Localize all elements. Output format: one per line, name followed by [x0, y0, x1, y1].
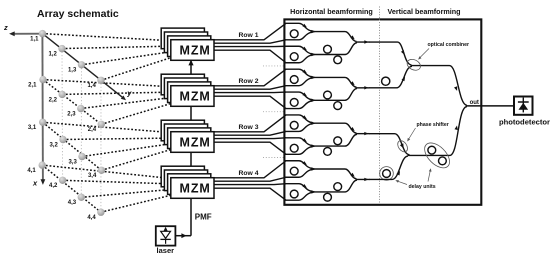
wire MZM3 output 3	[214, 137, 286, 140]
photodetector PD1	[514, 97, 533, 115]
combiner stage1 unit 7	[285, 161, 316, 178]
ring resonator stage2 row 1 a	[324, 45, 332, 53]
wire MZM4 output 2	[214, 177, 286, 181]
svg-text:Row 4: Row 4	[238, 170, 258, 177]
combiner stage2 row 3	[313, 123, 370, 146]
svg-text:4,2: 4,2	[49, 183, 58, 189]
feed line element 4,1 to MZM4	[42, 165, 176, 179]
ring resonator stage2 row 3 b	[334, 137, 342, 145]
feed line element 3,1 to MZM3	[43, 122, 176, 133]
svg-text:MZM: MZM	[180, 182, 211, 196]
row 3 axis dashed line	[43, 122, 102, 170]
feed line element 2,4 to MZM2	[101, 102, 176, 124]
antenna element 2,4	[98, 121, 105, 128]
svg-text:out: out	[470, 100, 479, 106]
wire MZM1 output 3	[214, 45, 286, 47]
svg-text:PMF: PMF	[195, 213, 212, 222]
phase shifter annotation ellipse	[396, 139, 410, 154]
combiner stage2 row 4	[313, 169, 370, 192]
delay units annotation ellipse	[420, 138, 454, 172]
antenna element 2,2	[59, 91, 66, 98]
svg-text:photodetector: photodetector	[499, 118, 550, 127]
feed line element 3,2 to MZM3	[63, 138, 176, 140]
wire laser to PMF	[176, 233, 191, 238]
ring resonator stage1 unit 2	[290, 53, 298, 61]
modulator stack MZM1 (Row 1)	[161, 28, 214, 60]
wire MZM2 output 1	[214, 69, 286, 86]
section divider	[379, 7, 381, 204]
ring resonator stage2 row 3 a	[324, 148, 332, 156]
svg-text:Vertical beamforming: Vertical beamforming	[387, 7, 460, 16]
feed line element 2,3 to MZM2	[81, 97, 176, 109]
feed line element 1,3 to MZM1	[82, 51, 177, 65]
wire MZM1 output 1	[214, 23, 286, 39]
svg-text:1,3: 1,3	[68, 68, 77, 74]
svg-text:optical combiner: optical combiner	[428, 42, 470, 48]
modulator stack MZM4 (Row 4)	[161, 166, 214, 198]
svg-text:MZM: MZM	[180, 136, 211, 150]
wire combined rows 3-4	[408, 107, 468, 156]
svg-text:x: x	[32, 179, 38, 188]
svg-text:delay units: delay units	[409, 184, 436, 190]
wire out	[466, 105, 514, 107]
x axis	[41, 34, 46, 185]
wire MZM3 output 1	[214, 115, 286, 132]
svg-text:z: z	[3, 23, 8, 32]
feed line element 4,2 to MZM4	[63, 180, 176, 184]
svg-text:3,3: 3,3	[68, 159, 77, 165]
antenna element 1,3	[78, 61, 85, 68]
feed line element 1,2 to MZM1	[62, 46, 176, 49]
svg-text:2,1: 2,1	[28, 83, 37, 89]
wire row4 to vertical combiner	[369, 156, 408, 179]
svg-text:3,2: 3,2	[49, 142, 58, 148]
combiner stage2 row 1	[313, 32, 370, 55]
row group separator	[263, 111, 284, 113]
feed line element 1,1 to MZM1	[43, 34, 177, 41]
feed line element 4,4 to MZM4	[101, 194, 176, 212]
svg-text:phase shifter: phase shifter	[417, 122, 449, 128]
OBFN chip boundary	[284, 19, 481, 204]
feed line element 3,4 to MZM3	[102, 148, 177, 170]
wire MZM2 output 3	[214, 91, 286, 94]
ring resonator stage1 unit 8	[290, 190, 298, 198]
svg-text:Row 2: Row 2	[238, 78, 258, 85]
z axis	[9, 31, 42, 36]
svg-text:1,4: 1,4	[87, 83, 96, 89]
ring resonator stage2 row 1 b	[334, 56, 342, 64]
svg-text:Array schematic: Array schematic	[37, 8, 119, 20]
wire row1 to vertical combiner	[369, 42, 412, 65]
column 4 guide line	[100, 80, 102, 212]
wire MZM4 output 1	[214, 161, 286, 178]
delay units pointer 2	[428, 168, 432, 181]
svg-text:Row 3: Row 3	[238, 124, 258, 131]
ring resonator stage2 row 4 a	[324, 193, 332, 201]
ring resonator stage1 unit 6	[290, 144, 298, 152]
svg-text:Row 1: Row 1	[238, 32, 258, 39]
combiner stage1 unit 2	[285, 46, 316, 63]
column 3 guide line	[80, 65, 82, 198]
wire MZM3 output 2	[214, 131, 286, 135]
combiner stage1 unit 4	[285, 92, 316, 109]
wire MZM2 output 2	[214, 86, 286, 90]
antenna element 1,1	[39, 30, 46, 37]
svg-text:Horizontal beamforming: Horizontal beamforming	[290, 7, 373, 16]
row group separator	[263, 157, 284, 159]
antenna element 3,4	[98, 167, 105, 174]
ring resonator stage2 row 2 a	[324, 91, 332, 99]
wire MZM4 output 4	[214, 188, 286, 200]
svg-text:3,4: 3,4	[88, 173, 97, 179]
ring resonator stage1 unit 7	[290, 167, 298, 175]
row 4 axis dashed line	[42, 165, 101, 212]
ring resonator row4 delay	[383, 170, 391, 178]
antenna element 4,2	[59, 177, 66, 184]
feed line element 4,3 to MZM4	[81, 189, 176, 197]
modulator stack MZM2 (Row 2)	[161, 74, 214, 106]
svg-text:2,4: 2,4	[88, 127, 97, 133]
wire row3 to vertical combiner	[369, 134, 410, 155]
svg-text:2,2: 2,2	[49, 97, 58, 103]
feed line element 3,3 to MZM3	[82, 143, 176, 157]
wire MZM4 output 3	[214, 183, 286, 186]
wire MZM3 output 4	[214, 142, 286, 154]
combiner stage1 unit 8	[285, 184, 316, 201]
svg-text:MZM: MZM	[180, 44, 211, 58]
antenna element 4,4	[97, 209, 104, 216]
modulator stack MZM3 (Row 3)	[161, 120, 214, 152]
row 2 axis dashed line	[43, 80, 101, 125]
svg-text:4,3: 4,3	[68, 200, 77, 206]
wire row2 to vertical combiner	[369, 66, 412, 88]
antenna element 3,1	[39, 119, 46, 126]
wire MZM1 output 2	[214, 40, 286, 43]
y axis	[43, 34, 127, 101]
antenna element 3,2	[59, 136, 66, 143]
PMF feed wire segment	[190, 199, 192, 236]
svg-text:4,4: 4,4	[87, 215, 96, 221]
antenna element 1,2	[58, 45, 65, 52]
laser LD1	[156, 226, 176, 245]
phase shifter pointer	[407, 128, 415, 142]
combiner stage2 row 2	[313, 77, 370, 100]
antenna element 1,4	[97, 77, 104, 84]
antenna element 3,3	[78, 153, 85, 160]
ring resonator stage2 row 2 b	[334, 102, 342, 110]
combiner stage1 unit 6	[285, 138, 316, 155]
feed line element 2,2 to MZM2	[62, 92, 176, 94]
svg-text:3,1: 3,1	[28, 125, 37, 131]
wire MZM1 output 4	[214, 50, 286, 63]
ring resonator rows34 a	[428, 146, 436, 154]
PMF feed wire segment	[190, 153, 192, 166]
PMF feed wire segment	[190, 107, 192, 120]
svg-text:2,3: 2,3	[67, 111, 76, 117]
ring resonator stage1 unit 1	[290, 30, 298, 38]
antenna element 4,1	[39, 161, 46, 168]
svg-text:4,1: 4,1	[27, 168, 36, 174]
wire MZM2 output 4	[214, 96, 286, 108]
wire combined rows 1-2	[411, 66, 467, 106]
combiner stage1 unit 1	[285, 23, 316, 39]
ring resonator rows34 b	[439, 157, 447, 165]
optical combiner pointer	[418, 49, 429, 60]
antenna element 2,3	[77, 105, 84, 112]
antenna element 4,3	[78, 194, 85, 201]
ring resonator stage1 unit 3	[290, 76, 298, 84]
feed line element 1,4 to MZM1	[101, 56, 176, 80]
feed line element 2,1 to MZM2	[43, 80, 176, 87]
ring resonator stage2 row 4 b	[334, 183, 342, 191]
annotation circle around row4 ring	[380, 167, 394, 181]
row group separator	[263, 65, 284, 67]
PMF feed wire segment	[188, 60, 193, 75]
ring resonator stage1 unit 5	[290, 121, 298, 129]
ring resonator row2 delay	[382, 77, 390, 85]
optical combiner annotation ellipse	[405, 57, 422, 72]
ring resonator stage1 unit 4	[290, 99, 298, 107]
combiner stage1 unit 3	[285, 69, 316, 86]
column 2 guide line	[61, 49, 64, 181]
svg-text:MZM: MZM	[180, 90, 211, 104]
antenna element 2,1	[39, 76, 46, 83]
combiner stage1 unit 5	[285, 115, 316, 132]
delay units pointer	[395, 180, 407, 184]
svg-text:1,1: 1,1	[30, 37, 39, 43]
svg-text:laser: laser	[157, 246, 175, 255]
svg-text:1,2: 1,2	[48, 52, 57, 58]
